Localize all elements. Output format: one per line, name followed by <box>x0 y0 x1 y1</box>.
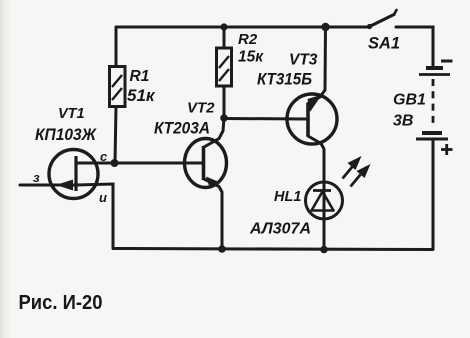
svg-text:VT2: VT2 <box>187 100 215 117</box>
svg-text:АЛ307А: АЛ307А <box>249 221 311 238</box>
transistor VT1 <box>49 150 98 199</box>
label minus <box>441 60 453 63</box>
resistor R2 <box>217 48 232 86</box>
label plus <box>441 144 453 155</box>
svg-text:SA1: SA1 <box>368 35 400 53</box>
LED emission arrow 1 <box>343 156 362 179</box>
svg-text:и: и <box>99 190 107 205</box>
wire VT2 collector <box>204 118 224 147</box>
wire VT1 gate lead <box>20 184 74 187</box>
transistor VT3 <box>287 94 337 144</box>
wire R1 column top <box>115 27 118 67</box>
wire R2 bottom to junction <box>223 86 226 118</box>
svg-text:Рис. И-20: Рис. И-20 <box>19 292 103 314</box>
wire drain node to VT2 base <box>76 162 203 165</box>
battery GB1 <box>416 68 450 139</box>
wire bottom rail <box>113 249 433 250</box>
resistor R1 <box>110 67 126 107</box>
svg-text:с: с <box>100 149 108 164</box>
wire switch to battery corner <box>396 27 433 67</box>
svg-text:51к: 51к <box>127 86 156 105</box>
svg-text:VT3: VT3 <box>289 52 318 69</box>
wire VT2 emitter down <box>204 179 222 249</box>
wire top rail <box>116 26 369 29</box>
svg-text:R1: R1 <box>130 68 150 85</box>
wire R2 column top <box>223 27 226 48</box>
wire battery to bottom rail <box>432 140 435 249</box>
svg-text:3В: 3В <box>393 113 413 130</box>
node R2 top <box>220 23 227 30</box>
svg-text:15к: 15к <box>238 49 264 66</box>
transistor VT2 <box>185 139 227 190</box>
wire LED through and down <box>323 182 326 249</box>
node VT2 emitter bottom <box>218 245 226 253</box>
wire VT3 emitter to LED <box>308 136 324 182</box>
node drain junction <box>111 159 119 167</box>
node LED bottom <box>320 246 328 254</box>
svg-text:КП103Ж: КП103Ж <box>35 125 97 144</box>
svg-text:VT1: VT1 <box>58 106 85 122</box>
svg-text:з: з <box>33 170 40 185</box>
switch SA1 <box>367 10 397 29</box>
svg-text:R2: R2 <box>238 31 258 48</box>
svg-text:КТ315Б: КТ315Б <box>257 70 312 89</box>
LED emission arrow 2 <box>351 164 371 187</box>
wire VT3 collector up <box>308 27 326 104</box>
node R2 VT3 base junction <box>220 114 228 122</box>
wire VT1 source <box>76 184 113 248</box>
node VT3 collector top <box>321 23 329 31</box>
svg-text:HL1: HL1 <box>274 189 301 205</box>
svg-text:КТ203А: КТ203А <box>154 120 210 138</box>
svg-text:GB1: GB1 <box>393 92 426 109</box>
wire R1 column bottom <box>115 106 116 163</box>
wire VT3 base <box>224 117 307 121</box>
LED HL1 <box>306 182 343 219</box>
